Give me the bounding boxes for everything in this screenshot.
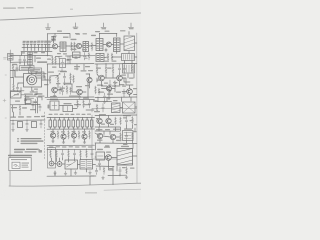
- transformer T8 (audio output transformer): [80, 160, 93, 170]
- transistor Q5: [77, 89, 83, 95]
- resistor ladder R31: [90, 118, 93, 130]
- resistor ladder R24: [58, 118, 61, 130]
- ground (right col): [103, 101, 106, 104]
- wire (right cluster bus): [95, 115, 137, 127]
- resistor R32: [115, 117, 117, 125]
- transistor Q18 (output): [106, 155, 112, 161]
- transformer T2 (2nd IF transformer): [83, 42, 89, 52]
- capacitor C29: [103, 93, 105, 101]
- label right column annotations: [76, 33, 134, 86]
- box (audio output module enclosure): [92, 109, 137, 160]
- capacitor C41 (stub plate): [85, 56, 88, 58]
- ground (left circuit): [12, 128, 29, 131]
- transformer T1 (1st IF transformer): [60, 42, 66, 52]
- label top mid: [57, 31, 80, 35]
- transformer T9 (power transformer, diagonal hatched): [117, 149, 133, 166]
- resistor R36: [132, 132, 134, 141]
- capacitor C13: [32, 101, 34, 109]
- label AGC: [33, 102, 38, 103]
- inductor L3 (choke, E-core hatched): [112, 103, 121, 113]
- resistor R49: [12, 65, 14, 72]
- node (junction dot): [37, 104, 38, 105]
- capacitor C23 (electrolytic, filled): [49, 161, 54, 166]
- caption text (parts list heading): [14, 149, 42, 153]
- capacitor C21: [73, 150, 75, 159]
- capacitor C38: [34, 100, 36, 105]
- wire (IF interstage links): [58, 45, 96, 48]
- transformer T7 (power transformer, boxed X): [123, 102, 136, 113]
- resistor R58: [58, 57, 66, 72]
- resistor R5: [55, 57, 57, 65]
- capacitor C12: [24, 100, 26, 101]
- capacitor C32: [88, 100, 90, 108]
- capacitor C11: [109, 80, 111, 89]
- node TP4 (alignment point marker): [129, 23, 134, 29]
- capacitor C28: [118, 65, 120, 74]
- ground (row C right): [109, 89, 112, 92]
- label right mid: [96, 118, 137, 125]
- capacitor C26: [83, 53, 85, 61]
- wire (left supply loop): [10, 98, 40, 113]
- wire (mid col verticals): [48, 64, 89, 97]
- transistor Q9: [127, 89, 133, 95]
- wire (row D right links): [95, 97, 137, 108]
- resistor ladder R27: [72, 118, 75, 130]
- capacitor C19: [125, 132, 127, 141]
- resistor R8: [13, 84, 15, 92]
- capacitor C4: [48, 41, 51, 51]
- node (junction dot bottom): [108, 166, 109, 167]
- wire (bottom right weave): [108, 166, 126, 185]
- ground (q19): [108, 97, 111, 100]
- wire (right col fill wires): [97, 74, 134, 101]
- switch S2 (on-off switch boxed): [65, 160, 78, 169]
- label mid annotations y70: [74, 68, 93, 71]
- label right values: [97, 84, 137, 89]
- capacitor C35: [39, 104, 41, 111]
- resistor R18: [19, 105, 21, 112]
- wire (row F bus): [47, 129, 95, 146]
- wire (converter bottom bus): [10, 80, 46, 95]
- transistor Q13: [82, 134, 87, 139]
- resistor ladder R23: [54, 118, 57, 130]
- resistor ladder R25: [63, 118, 66, 130]
- wire (gang right links): [30, 76, 45, 100]
- wire (top mid feeds): [48, 34, 71, 39]
- capacitor C34: [59, 87, 61, 95]
- wire (IF input bus): [21, 48, 52, 56]
- resistor R33: [120, 117, 122, 125]
- capacitor C40 (stub plate): [75, 56, 78, 58]
- resistor R21 (boxed): [32, 122, 37, 128]
- transistor Q11: [61, 134, 66, 139]
- transistor Q6: [87, 77, 92, 82]
- capacitor C10: [123, 65, 125, 74]
- wire (left tuner verticals): [10, 60, 30, 78]
- label mid row C: [56, 83, 90, 97]
- capacitor C30: [123, 89, 125, 97]
- transistor Q12: [71, 133, 76, 138]
- resistor row G R39: [68, 150, 70, 158]
- wire (left low bus): [10, 119, 45, 121]
- label right cluster: [96, 128, 132, 130]
- wire (right col verticals): [97, 61, 132, 87]
- resistor R10: [57, 76, 59, 85]
- wire (G row drops): [47, 158, 94, 176]
- variable capacitor VC1 (tuning gang, enclosure): [24, 74, 42, 88]
- rectifier D2 (boxed): [123, 64, 135, 74]
- resistor R35: [120, 133, 122, 142]
- capacitor C25: [119, 167, 121, 174]
- wire (row A right links): [103, 43, 137, 45]
- variable capacitor VC1 rotor (double circle): [27, 72, 37, 85]
- resistor R46: [95, 86, 97, 94]
- label bus parts: [11, 116, 46, 118]
- wire (row C mid links): [46, 74, 90, 92]
- capacitor C17: [40, 120, 42, 128]
- wire (left frame border): [9, 50, 11, 186]
- label right col extras: [96, 61, 122, 148]
- capacitor C3b: [44, 41, 47, 51]
- label tuner box: [20, 66, 35, 71]
- capacitor C5: [105, 48, 107, 52]
- node TP2 (alignment point marker): [73, 23, 78, 29]
- resistor R6: [107, 53, 109, 61]
- resistor R47: [77, 100, 79, 108]
- volume control VR1 (pot in box): [50, 101, 59, 110]
- node dots: [12, 33, 124, 150]
- wire (mid column buses): [45, 34, 94, 98]
- resistor R15: [112, 66, 114, 74]
- transistor Q4 (audio driver): [52, 87, 58, 93]
- transistor Q19: [107, 86, 112, 91]
- label boxed note (left of gang): [36, 72, 44, 78]
- label oscillator coil box: [29, 68, 42, 73]
- wire (right frame border): [136, 33, 138, 183]
- wire (main horizontal bus): [47, 116, 95, 118]
- resistor row G R41: [86, 150, 88, 158]
- label row A values: [71, 35, 97, 40]
- resistor ladder R26: [67, 118, 70, 130]
- label mid extras: [44, 49, 90, 109]
- wire (bottom right links): [96, 156, 137, 171]
- resistor R50: [70, 87, 72, 95]
- capacitor C31: [23, 56, 25, 63]
- label ladder values: [49, 114, 92, 115]
- resistor R16: [131, 65, 133, 74]
- node (bottom junction): [112, 169, 113, 170]
- node TP3 (alignment point marker): [101, 23, 106, 29]
- capacitor C2: [37, 41, 40, 51]
- transformer T6 (driver transformer): [96, 54, 104, 62]
- wire (gang to tuner): [15, 70, 24, 83]
- wire (q19 links): [102, 89, 116, 98]
- wire (right col stubs): [104, 125, 135, 135]
- resistor R45: [70, 73, 72, 81]
- capacitor C6: [19, 56, 21, 65]
- transistor Q17: [110, 134, 115, 139]
- transformer T5 (antenna coil, vertical): [28, 52, 32, 65]
- capacitor C1: [23, 41, 26, 51]
- wire (drop to bottom frame): [90, 176, 96, 185]
- rectifier D1 (selenium stack in box): [122, 54, 135, 61]
- label ladder row 2: [51, 131, 87, 133]
- fuse F1 (boxed): [96, 152, 105, 160]
- label row B note: [37, 62, 47, 63]
- resistor R12: [73, 75, 75, 83]
- connector J1 (antenna terminal strip): [8, 54, 14, 61]
- resistor R57 (boxed on wire): [25, 100, 31, 104]
- ground (row G): [54, 171, 92, 176]
- resistor ladder R28: [77, 118, 80, 130]
- wire (row B right links): [104, 52, 137, 58]
- resistor R55 (ladder row 2): [89, 131, 91, 140]
- label stamp box (dial cord diagram box): [8, 155, 32, 171]
- ground (output row): [52, 141, 86, 144]
- resistor ladder R30: [86, 118, 89, 130]
- label top right part numbers: [95, 30, 126, 32]
- resistor R42: [126, 167, 128, 175]
- node TP1 (alignment point marker): [46, 24, 51, 30]
- capacitor C33: [16, 65, 18, 72]
- label Q1 value: [63, 37, 69, 38]
- capacitor C22: [91, 150, 93, 159]
- label converter notes: [24, 93, 45, 99]
- label tuner small: [21, 52, 45, 54]
- wire (row G mid links): [52, 158, 96, 165]
- resistor R20 (boxed): [18, 122, 23, 128]
- capacitor C8: [16, 84, 18, 92]
- wire (output row links): [53, 129, 85, 142]
- label left col extras: [11, 58, 41, 111]
- box (filter can bottom-left of G row): [48, 148, 56, 169]
- capacitor C16: [26, 120, 28, 128]
- switch S1 (band switch in box with diagonal): [11, 92, 22, 99]
- resistor R19: [96, 104, 98, 112]
- node (gang center dot): [31, 79, 33, 81]
- resistor R7: [111, 53, 113, 61]
- wire (mid link bus y56): [70, 55, 95, 57]
- capacitor C24 (electrolytic, filled): [57, 162, 62, 167]
- transformer T3 (3rd IF transformer): [96, 39, 103, 51]
- label bottom right: [97, 146, 129, 153]
- resistor R11: [66, 86, 68, 95]
- capacitor C9: [61, 86, 63, 95]
- capacitor C39: [67, 56, 69, 64]
- resistor R44 (boxed horizontal): [73, 52, 81, 58]
- resistor R53 (ladder row 2): [68, 131, 70, 140]
- transistor Q3 (detector / driver): [106, 42, 111, 47]
- label row D values: [74, 104, 131, 116]
- resistor ladder R22: [49, 118, 52, 130]
- label mid tuner extras: [52, 53, 67, 68]
- shield line (dashed vertical partition): [44, 112, 46, 160]
- resistor R1: [71, 42, 73, 51]
- capacitor C1b: [26, 41, 29, 51]
- resistor R54 (ladder row 2): [78, 131, 80, 140]
- label bottom right extras: [109, 167, 135, 169]
- resistor row G R38: [56, 150, 58, 158]
- wire (band bus left): [10, 54, 47, 56]
- transistor Q10: [50, 133, 55, 138]
- header text (page caption top-left): [3, 7, 73, 10]
- resistor R9: [49, 76, 51, 84]
- label module title: [93, 100, 137, 147]
- transistor Q1 (1st IF amp): [52, 44, 57, 49]
- transistor Q8: [117, 75, 123, 81]
- capacitor C18: [125, 117, 127, 126]
- wire (lower right links): [95, 133, 137, 144]
- capacitor C1d: [34, 41, 37, 51]
- label VR2: [64, 103, 72, 104]
- resistor R56: [103, 167, 105, 175]
- wire (left col links): [10, 55, 47, 94]
- capacitor C37: [98, 161, 100, 167]
- resistor R4: [52, 57, 54, 65]
- label left supply: [15, 96, 30, 101]
- ground (Q5 emitter): [78, 95, 81, 99]
- wire (row A top feeds): [100, 32, 130, 39]
- resistor R52 (ladder row 2): [57, 131, 59, 140]
- capacitor C36: [95, 168, 97, 175]
- inductor L1 (tuned coil with trimmer arrow): [51, 36, 57, 43]
- resistor R14: [105, 66, 107, 74]
- wire (row B links): [47, 55, 70, 56]
- label right margin note: [38, 149, 41, 150]
- wire (bottom secondary rule right): [104, 189, 141, 190]
- capacitor C3: [41, 41, 44, 51]
- transistor Q15: [106, 118, 111, 123]
- relay K1 (boxed component lower right): [123, 131, 134, 141]
- label row G values: [49, 146, 93, 147]
- resistor R48: [83, 100, 85, 108]
- wire (row G top bus): [47, 148, 95, 150]
- transistor Q16: [97, 133, 102, 138]
- wire (trimmer arrow mid): [56, 74, 61, 79]
- resistor R2: [74, 42, 76, 51]
- capacitor C14: [102, 104, 104, 113]
- wire (right col cross links): [95, 78, 137, 102]
- resistor R34: [132, 117, 134, 126]
- resistor row G R40: [80, 150, 82, 158]
- tone control VR2 (pot in box): [63, 106, 73, 112]
- transformer T4 (output transformer, hatched): [124, 36, 135, 51]
- label footer text: [85, 192, 97, 193]
- label gang right: [34, 73, 47, 90]
- resistor R17: [114, 81, 116, 90]
- capacitor C20: [61, 150, 63, 159]
- resistor row G R37: [50, 150, 52, 158]
- resistor R43: [88, 53, 90, 61]
- label margin tick marks: [3, 58, 7, 119]
- wire (left supply verticals): [14, 95, 36, 117]
- wire (right mid weave): [95, 127, 133, 157]
- wire (row D mid bus): [47, 99, 95, 110]
- transistor Q7 (1st audio right): [99, 75, 105, 81]
- wire (bottom frame rule): [9, 183, 141, 186]
- resistor ladder R29: [81, 118, 84, 130]
- resistor R51: [98, 88, 100, 95]
- capacitor C27: [63, 73, 65, 82]
- capacitor C15: [12, 120, 14, 128]
- label VR1: [50, 99, 58, 100]
- transistor Q14: [97, 118, 102, 123]
- label row C values: [48, 71, 82, 97]
- ground (bottom right): [102, 175, 128, 179]
- wire (row C right bus): [95, 64, 137, 98]
- resistor R3: [91, 43, 93, 52]
- wire (top rule across page): [0, 13, 141, 20]
- note text block (service notes): [17, 138, 44, 144]
- transistor Q2 (2nd IF amp): [76, 43, 81, 48]
- inductor L2 (osc coil slug tuned): [114, 38, 121, 52]
- capacitor C1c: [30, 41, 33, 51]
- capacitor C7 (padder in box): [60, 59, 66, 68]
- resistor R13: [96, 66, 98, 74]
- ground (mid col): [53, 82, 66, 98]
